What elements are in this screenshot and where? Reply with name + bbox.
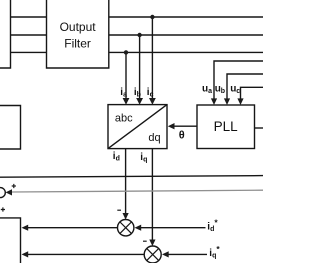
- svg-text:iq: iq: [140, 152, 147, 164]
- abc to dq transform box: [108, 105, 167, 149]
- minus sign at multiplier2: [143, 240, 147, 242]
- arrowhead ub into PLL: [224, 98, 230, 105]
- arrowhead id-ref into multiplier1: [135, 225, 142, 231]
- wire: iq vertical to multiplier: [151, 149, 153, 240]
- wire: multiplier2 output to PI box: [28, 253, 144, 255]
- svg-text:θ: θ: [179, 130, 185, 142]
- multiplier circle X1: [118, 220, 134, 236]
- svg-text:id*: id*: [207, 218, 218, 234]
- junction node phase b tap: [137, 33, 141, 37]
- svg-text:Filter: Filter: [64, 37, 91, 51]
- svg-text:dq: dq: [148, 132, 160, 144]
- arrowhead id into multiplier1: [123, 213, 129, 220]
- PI controller box (cropped bottom-left): [0, 218, 21, 263]
- inverter box (cropped top-left): [0, 0, 11, 68]
- wire: phase b right segment: [109, 34, 263, 36]
- PLL box U1: [197, 105, 255, 149]
- wire: ic current tap vertical: [151, 17, 153, 99]
- multiplier circle X2: [144, 246, 161, 263]
- diagonal of abc-dq box: [108, 105, 167, 149]
- wire: ub sense line: [227, 74, 263, 99]
- svg-text:ub: ub: [215, 84, 225, 96]
- arrowhead ua into PLL: [211, 98, 217, 105]
- wire: phase c right segment: [109, 51, 263, 53]
- svg-text:iq*: iq*: [209, 244, 220, 260]
- svg-text:Output: Output: [60, 20, 97, 34]
- junction node phase c tap: [150, 15, 154, 19]
- wire: iq-ref input: [169, 253, 208, 255]
- svg-text:abc: abc: [115, 112, 133, 124]
- wire: uc sense line: [241, 87, 264, 99]
- minus sign at multiplier1: [117, 209, 121, 211]
- svg-text:id: id: [113, 151, 120, 163]
- arrowhead ic into abc-dq: [149, 98, 156, 105]
- wire: id-ref input: [141, 227, 206, 229]
- plus sign at summer right input: [12, 184, 16, 188]
- wire: theta from PLL to abc-dq: [175, 125, 198, 127]
- wire: multiplier1 output to PI box: [28, 227, 118, 229]
- wire: phase b left segment: [11, 34, 47, 36]
- wire: ua sense line: [214, 61, 263, 99]
- arrowhead uc into PLL: [237, 98, 243, 105]
- wire: id vertical to multiplier: [125, 149, 127, 214]
- summing junction circle (cropped at left edge): [0, 188, 5, 198]
- arrowhead gray feedback into summer: [6, 189, 13, 195]
- arrowhead theta into abc-dq: [168, 123, 175, 129]
- svg-text:ua: ua: [202, 84, 212, 96]
- arrowhead iq into multiplier2: [149, 240, 155, 247]
- plus sign at summer bottom input: [1, 207, 5, 211]
- wire: gray feedback line into summer: [12, 190, 264, 192]
- wire: PLL right output: [255, 127, 264, 129]
- svg-text:uc: uc: [230, 84, 240, 96]
- wire: phase a right segment: [109, 16, 263, 18]
- wire: ib current tap vertical: [139, 35, 141, 99]
- dq to abc box (cropped left-middle): [0, 106, 21, 150]
- arrowhead ib into abc-dq: [136, 98, 143, 105]
- svg-text:PLL: PLL: [214, 119, 239, 134]
- output filter box: [47, 0, 109, 68]
- wire: phase a left segment: [11, 16, 47, 18]
- wire: ia current tap vertical: [125, 52, 127, 99]
- arrowhead multiplier1 output into PI box: [22, 225, 29, 231]
- junction node phase a tap: [124, 50, 128, 54]
- wire: long feedback line: [0, 176, 263, 178]
- wire: phase c left segment: [11, 51, 47, 53]
- wire: summer input from bottom: [0, 198, 1, 218]
- arrowhead ia into abc-dq: [123, 98, 130, 105]
- arrowhead multiplier2 output into PI box: [22, 251, 29, 257]
- arrowhead iq-ref into multiplier2: [162, 251, 169, 257]
